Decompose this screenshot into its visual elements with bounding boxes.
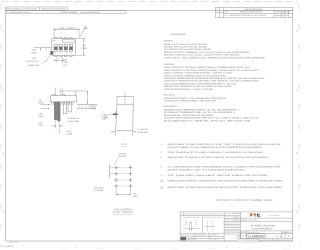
frame bottom — [6, 240, 293, 242]
svg-text:MATERIAL: MATERIAL — [164, 40, 174, 43]
drawing number oval — [247, 234, 267, 238]
svg-text:TOLERANCES UNLESS OTHERWISE SP: TOLERANCES UNLESS OTHERWISE SPECIFIED — [185, 212, 223, 215]
logo row line — [240, 217, 293, 219]
svg-text:15MAY2020: 15MAY2020 — [234, 213, 242, 215]
svg-text:1.78: 1.78 — [32, 57, 37, 60]
hole cross row2 R — [128, 172, 132, 176]
svg-text:C: C — [296, 89, 298, 92]
svg-text:7.62: 7.62 — [132, 192, 137, 195]
svg-text:OBSOLETE PARTS: OBSOLETE OR DI: OBSOLETE PARTS: OBSOLETE OR DISCONTINUED… — [167, 179, 283, 182]
svg-text:MOVING CONTACT: CU ALLOY, GOLD: MOVING CONTACT: CU ALLOY, GOLD PLATE OVE… — [164, 54, 241, 57]
svg-text:B: B — [3, 152, 5, 155]
svg-text:DATE: DATE — [275, 11, 281, 14]
svg-text:D: D — [296, 30, 298, 33]
position numbers — [55, 52, 72, 55]
svg-text:AS PART NUMBER: AS PART NUMBER — [60, 11, 78, 14]
hole cross row4 L — [114, 184, 118, 188]
sketch cells divider — [180, 232, 224, 234]
svg-text:COVER: PPS, GLASS FILLED, BLAC: COVER: PPS, GLASS FILLED, BLACK — [164, 46, 208, 49]
right small dim text — [90, 105, 109, 120]
svg-text:P: P — [216, 9, 218, 12]
revision table text — [216, 8, 291, 17]
tape seal recess rect — [63, 39, 74, 42]
svg-text:BASE: PPS, GLASS FILLED, BLACK: BASE: PPS, GLASS FILLED, BLACK — [164, 43, 208, 46]
svg-text:SEE SHEET 2 FOR PART NUMBER TA: SEE SHEET 2 FOR PART NUMBER TABLE — [216, 198, 273, 202]
left bottom strip text — [181, 233, 220, 241]
svg-text:1: 1 — [55, 52, 57, 55]
hole cross row1 L — [114, 166, 118, 170]
svg-text:[.020]: [.020] — [38, 101, 44, 104]
svg-text:MECHANICAL: MECHANICAL — [164, 93, 176, 96]
name/date column rows — [239, 212, 241, 239]
svg-text:APVD: APVD — [285, 11, 291, 14]
svg-text:TYP: TYP — [102, 118, 107, 121]
page edge tick marks left — [0, 4, 2, 246]
svg-text:SHEET 1 OF 2: SHEET 1 OF 2 — [274, 239, 287, 242]
svg-text:ON: ON — [52, 39, 56, 42]
dimensions row text — [241, 219, 258, 222]
title bottom line — [240, 230, 293, 232]
top dimension 7.62 — [54, 28, 79, 38]
svg-text:15MAY2020: 15MAY2020 — [234, 216, 242, 218]
svg-text:3: 3 — [65, 52, 67, 55]
svg-text:CLEAR TUBES TO ACCOMMODATE AUT: CLEAR TUBES TO ACCOMMODATE AUTO-INSERTIO… — [167, 146, 263, 149]
svg-text:ALL MATERIALS ARE PROCESSED SH: ALL MATERIALS ARE PROCESSED SHALL COMPLY… — [167, 165, 281, 168]
header table text — [7, 7, 100, 13]
svg-text:4.: 4. — [161, 165, 163, 168]
projection lines above body — [55, 87, 62, 94]
svg-text:[.049]: [.049] — [101, 115, 107, 118]
profile body — [116, 104, 134, 131]
svg-text:SWITCHES TO BE PACKAGED IN ANT: SWITCHES TO BE PACKAGED IN ANTI-STATIC T… — [167, 186, 283, 189]
svg-text:SM: SM — [285, 14, 288, 17]
svg-text:OPERATING FORCE: 1,000 GRAMS M: OPERATING FORCE: 1,000 GRAMS MAX PER SWI… — [164, 97, 227, 100]
svg-text:ENVIRONMENTAL: ENVIRONMENTAL — [164, 105, 178, 108]
svg-text:2.54±0.13: 2.54±0.13 — [67, 117, 80, 120]
svg-text:NON CONTACT NON-SWITCHING: 100: NON CONTACT NON-SWITCHING: 100 MA 5 VDC — [164, 72, 233, 75]
svg-text:NON CONTACT RATING (SWITCHING): NON CONTACT RATING (SWITCHING): 100MA MA… — [164, 69, 260, 72]
header table top-left — [6, 7, 126, 13]
svg-text:© COPYRIGHT 2020: © COPYRIGHT 2020 — [7, 11, 29, 14]
sketch cell 1 content — [183, 221, 199, 231]
center dim 2.54±0.13 — [67, 117, 80, 123]
svg-text:[.040]: [.040] — [38, 115, 44, 118]
left pin dimension — [34, 48, 52, 51]
svg-text:2: 2 — [75, 246, 77, 249]
svg-text:TOP SURFACE TO BE CLEARLY MARK: TOP SURFACE TO BE CLEARLY MARKED AS SHOW… — [167, 151, 263, 154]
svg-text:INITIAL CONTACT RESISTANCE: 50: INITIAL CONTACT RESISTANCE: 50 MILLIOHMS… — [164, 74, 227, 77]
svg-text:4 81-05: 4 81-05 — [8, 241, 18, 244]
svg-text:OPERATING TEMPERATURE: -55 TO: OPERATING TEMPERATURE: -55 TO +85 DEGREE… — [164, 109, 241, 112]
svg-text:5.74±0.05: 5.74±0.05 — [137, 128, 148, 131]
svg-text:1.02: 1.02 — [38, 113, 43, 116]
note triangle 7 — [161, 186, 164, 188]
svg-text:CONTACT RESISTANCE (AFTER ENVI: CONTACT RESISTANCE (AFTER ENVIRONMENTAL … — [164, 77, 265, 80]
actuator 4 — [70, 47, 73, 50]
pin dim arrows 2.54 — [51, 125, 64, 127]
svg-text:C: C — [237, 235, 240, 239]
hole cross row2 L — [114, 172, 118, 176]
svg-text:[.300]: [.300] — [132, 195, 138, 198]
standoff feet — [52, 102, 73, 104]
svg-text:D: D — [3, 30, 5, 33]
svg-text:A: A — [3, 211, 5, 214]
svg-text:1: 1 — [226, 246, 228, 249]
window side ticks — [54, 47, 74, 50]
svg-text:8 POSITION SHOWN: 8 POSITION SHOWN — [204, 216, 223, 219]
svg-text:A: A — [296, 211, 298, 214]
svg-text:RELEASED FOR PUBLICATION: RELEASED FOR PUBLICATION — [42, 7, 67, 10]
pc layout left dim — [110, 165, 114, 178]
svg-text:LOC B: LOC B — [275, 235, 282, 238]
svg-text:[.040]: [.040] — [31, 51, 37, 54]
svg-text:DIMENSIONS IN MM: DIMENSIONS IN MM — [241, 219, 258, 222]
svg-text:CONTACT PRESSURE: 100,000 PSI: CONTACT PRESSURE: 100,000 PSI — [164, 100, 217, 103]
profile center line — [124, 92, 126, 104]
svg-text:ACTUATOR: PBT, GLASS FILLED, W: ACTUATOR: PBT, GLASS FILLED, WHITE — [164, 48, 212, 51]
left dimension texts — [26, 49, 40, 67]
svg-text:TE: TE — [253, 213, 261, 218]
svg-text:108-25059: 108-25059 — [225, 228, 240, 231]
pin extension lines — [56, 120, 59, 135]
actuator 2 — [59, 47, 62, 50]
top view body — [52, 39, 76, 56]
svg-text:2: 2 — [75, 2, 77, 5]
svg-text:PRODUCT SPEC: PRODUCT SPEC — [225, 222, 240, 225]
svg-text:LTR: LTR — [225, 11, 229, 14]
hole cross row4 R — [128, 184, 132, 188]
pdf stamp pill — [237, 239, 258, 242]
svg-text:SHEET: SHEET — [210, 233, 219, 236]
svg-text:3X 2.54: 3X 2.54 — [94, 186, 105, 189]
switch window 3 — [64, 44, 67, 51]
svg-text:[Ø.030]: [Ø.030] — [118, 155, 126, 158]
svg-text:JP SERIES OF DIP SW,: JP SERIES OF DIP SW, — [250, 225, 275, 228]
TE logo — [249, 213, 261, 218]
svg-text:[.100]: [.100] — [94, 189, 103, 192]
hole cross row3 R — [128, 178, 132, 182]
pin 1 terminal — [50, 51, 53, 55]
left bottom strip — [180, 235, 224, 237]
frame right — [292, 7, 294, 241]
svg-text:VERT. MOUNT: VERT. MOUNT — [112, 211, 134, 214]
actuator bumps on top — [53, 94, 65, 96]
svg-text:B: B — [296, 152, 298, 155]
profile terminal leader — [108, 113, 113, 115]
svg-text:LIFE EXPECTANCY: 2,000 CYCLES: LIFE EXPECTANCY: 2,000 CYCLES — [164, 88, 214, 91]
svg-text:APPLICATION SPEC: APPLICATION SPEC — [225, 225, 240, 228]
profile top cap — [117, 97, 133, 105]
svg-text:TAPE SEAL: POLYIMIDE FILM, RES: TAPE SEAL: POLYIMIDE FILM, RESISTS 500 F… — [164, 56, 266, 59]
frame left — [5, 7, 7, 241]
svg-text:REVISIONS: REVISIONS — [245, 8, 263, 11]
svg-text:SOLDER HEAT RESISTANCE: PER 26: SOLDER HEAT RESISTANCE: PER 260+/-5C, CO… — [164, 117, 260, 120]
scale sheet row — [260, 239, 291, 242]
svg-text:CONTACT RESISTANCE (AFTER LIFE: CONTACT RESISTANCE (AFTER LIFE TESTS): 1… — [164, 80, 260, 83]
svg-text:C: C — [3, 89, 5, 92]
svg-text:CAGE CODE: CAGE CODE — [241, 231, 246, 234]
svg-text:SPECIFICATIONS:: SPECIFICATIONS: — [171, 33, 186, 36]
note triangle 6 — [161, 179, 164, 181]
frame top — [6, 10, 293, 12]
hole cross row3 L — [114, 178, 118, 182]
bottom label row — [237, 231, 293, 234]
drawing title — [250, 225, 275, 231]
name date column text — [225, 212, 242, 234]
page edge tick marks right — [298, 4, 300, 246]
svg-text:SCALE 4:1: SCALE 4:1 — [181, 233, 193, 236]
switch window 1 — [54, 44, 57, 51]
page edge tick marks top — [2, 1, 298, 3]
svg-text:TYP: TYP — [63, 64, 68, 67]
pc layout bottom dim — [116, 189, 130, 196]
svg-text:0.51: 0.51 — [38, 99, 43, 102]
svg-text:ALL RIGHTS RESERVED: ALL RIGHTS RESERVED — [80, 11, 101, 14]
profile bottom dimension — [111, 132, 136, 136]
svg-text:[.226±.002]: [.226±.002] — [137, 131, 148, 134]
switch window 2 — [59, 44, 62, 51]
svg-text:4CF: 4CF — [121, 143, 128, 146]
revision table top-right — [215, 7, 292, 17]
svg-text:[.100±.005]: [.100±.005] — [67, 120, 79, 123]
svg-text:C-1825059: C-1825059 — [248, 234, 265, 238]
actuator 1 — [54, 47, 57, 50]
svg-text:P: P — [181, 212, 183, 215]
svg-text:2.54: 2.54 — [63, 58, 68, 61]
svg-text:INSULATION RESISTANCE: 1,000 M: INSULATION RESISTANCE: 1,000 MEGOHMS MIN… — [164, 82, 237, 85]
tolerance strip text — [181, 212, 223, 219]
svg-text:1 : 1: 1 : 1 — [210, 238, 216, 241]
svg-text:[.100]: [.100] — [62, 61, 68, 64]
svg-text:DESCRIPTION: DESCRIPTION — [240, 11, 263, 14]
pins front view — [54, 102, 71, 121]
pcb section lines — [77, 104, 97, 108]
svg-text:P1 REVISED PER ECO-20-010017: P1 REVISED PER ECO-20-010017 — [225, 14, 267, 17]
svg-text:PINS (CONTACT TERMINAL): CU AL: PINS (CONTACT TERMINAL): CU ALLOY, GOLD … — [164, 51, 251, 54]
svg-text:SOLDERABILITY: PER MIL-STD-202: SOLDERABILITY: PER MIL-STD-202, METHOD 2… — [164, 119, 252, 122]
svg-text:SCALE 6:1: SCALE 6:1 — [260, 239, 271, 242]
svg-text:WEIGHT: WEIGHT — [195, 233, 209, 236]
numbered notes — [161, 143, 284, 189]
svg-text:SOLDERING: ADDITIVE OF SOLVENT: SOLDERING: ADDITIVE OF SOLVENT — [164, 114, 215, 117]
svg-text:TE connectivity: TE connectivity — [269, 214, 280, 217]
svg-text:P: P — [288, 235, 290, 238]
svg-text:2.54: 2.54 — [67, 130, 72, 133]
svg-text:4 81-0525-0: 4 81-0525-0 — [1, 245, 15, 248]
profile left dim text — [101, 113, 107, 121]
bottom edge scallops — [54, 55, 73, 57]
svg-text:7.62 [.300]: 7.62 [.300] — [57, 27, 77, 30]
svg-text:METRIC: METRIC — [187, 238, 198, 241]
front view body — [51, 96, 77, 102]
tolerance strip — [180, 214, 224, 216]
svg-text:1.: 1. — [161, 143, 163, 146]
leader to pin1 — [40, 55, 51, 65]
svg-text:1: 1 — [226, 2, 228, 5]
svg-text:15MAY20: 15MAY20 — [275, 14, 281, 17]
svg-text:NON CONTACT RATING (SWITCHING): NON CONTACT RATING (SWITCHING): CONSEQUE… — [164, 66, 251, 69]
svg-text:SWITCHES TO BE BLACK WITH WHIT: SWITCHES TO BE BLACK WITH WHITE ACTUATOR… — [167, 156, 269, 159]
hole cross row1 R — [128, 166, 132, 170]
svg-text:[.070] TYP: [.070] TYP — [26, 60, 40, 63]
svg-text:5.: 5. — [161, 174, 163, 177]
svg-text:SAME SIDE: SAME SIDE — [28, 64, 40, 67]
svg-text:DIELECTRIC STRENGTH: 500 VAC R: DIELECTRIC STRENGTH: 500 VAC RMS AT SEA … — [164, 85, 233, 88]
svg-text:1.02: 1.02 — [32, 49, 37, 52]
svg-text:[.020]: [.020] — [90, 107, 96, 110]
hole callout — [118, 152, 126, 158]
svg-text:7.10: 7.10 — [82, 44, 87, 47]
svg-text:3.: 3. — [161, 156, 163, 159]
svg-text:STORAGE TEMPERATURE: -55 TO +8: STORAGE TEMPERATURE: -55 TO +85 DEGREES … — [164, 111, 236, 114]
svg-text:[.280]: [.280] — [81, 47, 87, 50]
svg-text:ELECTRICAL: ELECTRICAL — [164, 63, 175, 66]
top edge scallops — [54, 37, 73, 39]
svg-text:LOW PROFILE: LOW PROFILE — [252, 228, 273, 231]
sketch cell 2 content — [205, 221, 215, 232]
svg-text:4X Ø0.75: 4X Ø0.75 — [119, 152, 127, 155]
right dimension 7.1 — [76, 39, 85, 56]
front view left dim leaders — [41, 104, 51, 108]
dashed connection lines — [119, 168, 128, 186]
actuator 3 — [65, 47, 68, 50]
svg-text:THIS DRAWING IS UNPUBLISHED.: THIS DRAWING IS UNPUBLISHED. — [7, 7, 38, 10]
svg-text:[.100]: [.100] — [67, 133, 73, 136]
svg-text:4: 4 — [70, 52, 72, 55]
title block outline — [180, 212, 293, 241]
page edge tick marks bottom — [60, 248, 298, 250]
top dimension line of front view — [60, 89, 88, 104]
svg-text:[.010]: [.010] — [38, 124, 44, 127]
svg-text:2.: 2. — [161, 151, 163, 154]
svg-text:SWITCHES TO BE SHIPPED IN THE: SWITCHES TO BE SHIPPED IN THE "OFF" POSI… — [167, 143, 281, 146]
svg-text:2002 /95/EC OF 27JAN2003 (ROHS: 2002 /95/EC OF 27JAN2003 (ROHS) — [167, 168, 245, 171]
svg-text:TOP TAPE SEAL AVAILABLE, SEE P: TOP TAPE SEAL AVAILABLE, SEE P/N TABLE F… — [167, 174, 268, 177]
profile side terminal — [113, 113, 118, 115]
svg-text:C-1825059-A1: C-1825059-A1 — [239, 239, 256, 242]
bottom dimension 2.54 — [54, 57, 66, 63]
svg-text:4 POSITION SHOWN: 4 POSITION SHOWN — [182, 216, 201, 219]
svg-text:0.25: 0.25 — [38, 121, 43, 124]
revision balloon triangle 1 — [80, 26, 87, 37]
switch window 4 — [69, 44, 72, 51]
svg-text:2: 2 — [60, 52, 62, 55]
